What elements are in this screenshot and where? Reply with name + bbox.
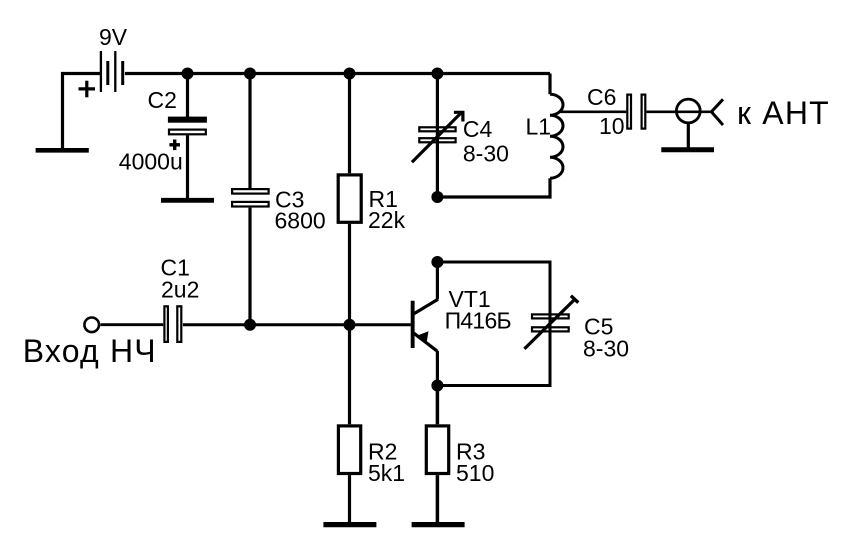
wire input to C1 bbox=[100, 323, 163, 326]
junction dot C bbox=[344, 68, 356, 80]
junction dot G bbox=[431, 380, 443, 392]
svg-text:9V: 9V bbox=[99, 24, 128, 50]
C2 plus sign bbox=[169, 140, 180, 151]
svg-text:C4: C4 bbox=[463, 116, 493, 142]
capacitor C5 (trimmer) bbox=[437, 262, 578, 386]
battery plus sign bbox=[79, 81, 96, 98]
capacitor C1 bbox=[164, 306, 181, 342]
svg-text:L1: L1 bbox=[526, 114, 552, 140]
capacitor C6 bbox=[627, 95, 645, 129]
svg-text:6800: 6800 bbox=[275, 208, 326, 234]
svg-text:8-30: 8-30 bbox=[463, 140, 509, 166]
junction dot I bbox=[344, 319, 356, 331]
svg-text:10: 10 bbox=[599, 113, 625, 139]
capacitor C4 (variable) bbox=[412, 74, 463, 198]
junction dot E bbox=[431, 191, 443, 203]
svg-text:П416Б: П416Б bbox=[445, 308, 511, 334]
wire battery negative to ground bbox=[63, 74, 101, 150]
svg-text:2u2: 2u2 bbox=[161, 277, 199, 303]
svg-text:5k1: 5k1 bbox=[368, 460, 405, 486]
ground (C2) bbox=[161, 198, 214, 203]
junction dot D bbox=[431, 68, 443, 80]
battery GB1 bbox=[101, 51, 123, 92]
junction dot H bbox=[244, 319, 256, 331]
svg-text:C6: C6 bbox=[587, 84, 616, 110]
svg-text:22k: 22k bbox=[368, 207, 406, 233]
wire L1 tap to C6 bbox=[560, 110, 627, 113]
junction dot B bbox=[244, 68, 256, 80]
resistor R1 bbox=[338, 74, 361, 325]
ground (R3) bbox=[412, 522, 465, 527]
input connector circle bbox=[84, 318, 99, 333]
wire C6 to antenna bbox=[646, 110, 711, 113]
junction dot F bbox=[431, 256, 443, 268]
ground (battery) bbox=[36, 148, 89, 153]
svg-text:Вход НЧ: Вход НЧ bbox=[23, 333, 157, 369]
transistor VT1 bbox=[413, 262, 438, 386]
svg-text:8-30: 8-30 bbox=[583, 336, 629, 362]
wire C1 to transistor base bbox=[183, 323, 411, 326]
capacitor C2 bbox=[168, 74, 207, 199]
junction dot A bbox=[182, 68, 194, 80]
capacitor C3 bbox=[232, 74, 269, 325]
svg-text:к АНТ: к АНТ bbox=[737, 95, 830, 131]
svg-text:4000u: 4000u bbox=[119, 149, 183, 175]
resistor R2 bbox=[338, 325, 360, 522]
wire antenna connector to ground bbox=[687, 124, 690, 148]
svg-text:510: 510 bbox=[456, 460, 494, 486]
ground (R2) bbox=[323, 522, 376, 527]
resistor R3 bbox=[426, 386, 448, 523]
antenna fork bbox=[711, 99, 723, 125]
svg-text:C2: C2 bbox=[148, 87, 177, 113]
ground (antenna) bbox=[661, 147, 714, 152]
inductor L1 bbox=[437, 74, 563, 198]
antenna connector circle bbox=[676, 99, 700, 123]
wire top rail bbox=[125, 72, 550, 75]
